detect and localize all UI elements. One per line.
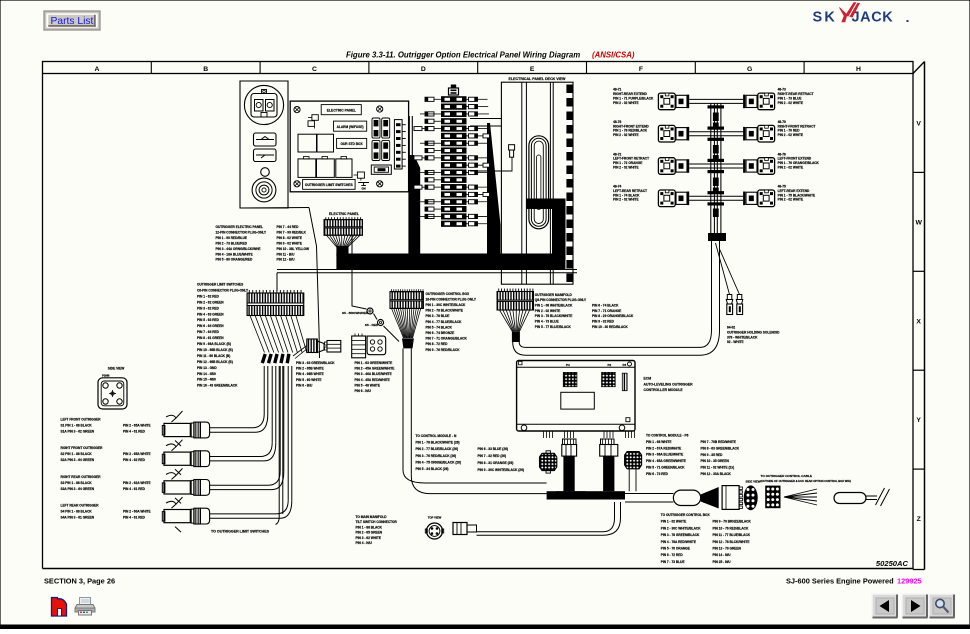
trunk tail wires — [711, 241, 713, 330]
svg-text:PIN 1 - 63 GREEN/WHITE: PIN 1 - 63 GREEN/WHITE — [355, 361, 393, 365]
terminal block ladder — [414, 85, 499, 227]
svg-text:PIN 10 - 30 RED/BLACK: PIN 10 - 30 RED/BLACK — [592, 325, 628, 329]
svg-text:TO OUTRIGGER CONTROL BOX: TO OUTRIGGER CONTROL BOX — [661, 513, 711, 517]
svg-text:S5 - BROWN/RED: S5 - BROWN/RED — [342, 311, 369, 315]
svg-text:PIN 6 - 74 BLACK: PIN 6 - 74 BLACK — [592, 304, 619, 308]
electric panel 12-pin connector — [324, 217, 362, 235]
manifold cable ferrule — [512, 332, 520, 342]
svg-text:PIN 10 - 66B BLACK (B): PIN 10 - 66B BLACK (B) — [197, 348, 233, 352]
svg-text:PIN 2 - 02 WHITE: PIN 2 - 02 WHITE — [535, 309, 561, 313]
svg-text:ALARM (W/FUSE): ALARM (W/FUSE) — [337, 125, 364, 129]
electric panel enclosure — [290, 101, 408, 192]
main harness trunk horizontal — [336, 254, 565, 270]
svg-text:12-PIN CONNECTOR PLUG-ONLY: 12-PIN CONNECTOR PLUG-ONLY — [216, 230, 268, 234]
circuit breaker CB1 — [371, 165, 391, 174]
svg-text:PIN 4 - 77 BLUE/BLACK: PIN 4 - 77 BLUE/BLACK — [426, 320, 463, 324]
svg-text:PIN 2 - 62 GREEN: PIN 2 - 62 GREEN — [197, 300, 224, 304]
terminal strip TS1 — [394, 120, 405, 169]
svg-text:PIN 4 - N/U: PIN 4 - N/U — [356, 541, 373, 545]
svg-text:F: F — [639, 66, 643, 73]
svg-text:S1 PIN 1 - 88 BLACK: S1 PIN 1 - 88 BLACK — [61, 424, 93, 428]
svg-text:PIN 7 - 99 RED/BLK: PIN 7 - 99 RED/BLK — [277, 230, 307, 234]
svg-text:PIN 3 - 78 GREEN/BLACK: PIN 3 - 78 GREEN/BLACK — [661, 533, 700, 537]
svg-text:PIN 4 - 73 BLUE: PIN 4 - 73 BLUE — [535, 320, 559, 324]
svg-text:PIN 2 - 02 WHITE: PIN 2 - 02 WHITE — [778, 165, 804, 169]
svg-text:OUTRIGGER LIMIT SWITCHES: OUTRIGGER LIMIT SWITCHES — [305, 183, 354, 187]
svg-text:PIN 8 - 02 WHITE: PIN 8 - 02 WHITE — [277, 236, 303, 240]
svg-text:PIN 8 - 63 GREEN/BLACK: PIN 8 - 63 GREEN/BLACK — [701, 446, 740, 450]
row 4 wire pair — [689, 195, 743, 197]
svg-text:50250AC: 50250AC — [876, 559, 909, 568]
svg-text:PIN 2 - 02 WHITE: PIN 2 - 02 WHITE — [778, 133, 804, 137]
tilt switch plug — [453, 523, 477, 535]
svg-text:PIN 2 - 77 BLUE/BLACK (26): PIN 2 - 77 BLUE/BLACK (26) — [416, 447, 459, 451]
svg-text:PIN 6 - N/U: PIN 6 - N/U — [355, 389, 372, 393]
svg-text:PIN 1 - 78 BLACK/WHITE (26): PIN 1 - 78 BLACK/WHITE (26) — [416, 441, 460, 445]
inline stadium connector 2 — [834, 493, 866, 504]
svg-text:PIN 11 - B/U: PIN 11 - B/U — [277, 252, 296, 256]
svg-text:PIN 2 - 67A RED/WHITE: PIN 2 - 67A RED/WHITE — [646, 446, 681, 450]
door indicator lamp — [261, 168, 270, 177]
figure title — [346, 51, 635, 60]
ECM auto-leveling controller module — [517, 361, 635, 432]
svg-text:PIN 15 - 46/0: PIN 15 - 46/0 — [197, 378, 216, 382]
label OUTRIGGER LIMIT SWITCHES — [303, 179, 356, 189]
svg-text:X: X — [916, 318, 921, 325]
svg-text:PIN 1 - 02 WHITE: PIN 1 - 02 WHITE — [661, 520, 687, 524]
svg-text:PIN 4 - 62 RED: PIN 4 - 62 RED — [123, 458, 146, 462]
svg-text:TO MAIN MANIFOLD: TO MAIN MANIFOLD — [356, 515, 388, 519]
svg-text:PIN 25 - N/U: PIN 25 - N/U — [713, 560, 732, 564]
aux D-sub connector — [367, 336, 386, 355]
svg-text:LEFT FRONT OUTRIGGER: LEFT FRONT OUTRIGGER — [61, 418, 102, 422]
svg-text:PIN 9 - 35 RED: PIN 9 - 35 RED — [701, 453, 724, 457]
limit harness receptacle connector — [325, 341, 341, 353]
waffle connector face view — [765, 486, 780, 509]
label ALARM — [334, 121, 367, 131]
svg-text:PIN 2 - 02 WHITE: PIN 2 - 02 WHITE — [613, 165, 639, 169]
manifold connector wire fan — [500, 310, 530, 332]
svg-text:TILT SWITCH CONNECTOR: TILT SWITCH CONNECTOR — [356, 520, 398, 524]
svg-text:PIN 2 - 73 BLUE/RED: PIN 2 - 73 BLUE/RED — [216, 241, 248, 245]
solenoid connector row 4 right receptacle — [743, 192, 757, 206]
svg-text:OUTRIGGER MANIFOLD: OUTRIGGER MANIFOLD — [535, 293, 573, 297]
svg-text:PIN 2 - 65A WHITE: PIN 2 - 65A WHITE — [123, 452, 151, 456]
svg-text:16-PIN CONNECTOR PLUG ONLY: 16-PIN CONNECTOR PLUG ONLY — [426, 297, 477, 301]
svg-text:S4A PIN 3 - 61 GREEN: S4A PIN 3 - 61 GREEN — [61, 516, 95, 520]
outrigger limit switch 4 body — [162, 497, 190, 532]
svg-text:Parts List: Parts List — [51, 16, 94, 27]
ladder link wires to deck view box — [470, 118, 501, 120]
deck view box — [501, 82, 573, 284]
svg-text:W: W — [915, 219, 922, 226]
outrigger limit switch header connector — [247, 290, 304, 316]
svg-text:PIN 9 - 32 RED: PIN 9 - 32 RED — [592, 320, 615, 324]
svg-text:PIN 2 - 65 GREEN: PIN 2 - 65 GREEN — [356, 531, 383, 535]
svg-text:PIN 4 - 45A RED/WHITE: PIN 4 - 45A RED/WHITE — [355, 378, 390, 382]
svg-text:S4 PIN 1 - 88 BLACK: S4 PIN 1 - 88 BLACK — [61, 510, 93, 514]
svg-text:PIN 6 - B/U: PIN 6 - B/U — [296, 383, 313, 387]
svg-text:D: D — [421, 66, 426, 73]
outrigger limit switch 2 wire pair — [210, 456, 260, 458]
svg-text:PIN 16 - 43 GREEN/BLACK: PIN 16 - 43 GREEN/BLACK — [197, 384, 238, 388]
svg-text:PIN 9 - 02 WHITE: PIN 9 - 02 WHITE — [277, 241, 303, 245]
holding solenoid blade terminal 1 — [726, 295, 733, 315]
row 1 wire pair — [689, 98, 743, 100]
svg-text:PIN 4 - 18A BLUE/WHITE: PIN 4 - 18A BLUE/WHITE — [216, 252, 253, 256]
svg-text:PIN 13 - 79 GREEN: PIN 13 - 79 GREEN — [713, 547, 742, 551]
control box connector wire fan — [392, 308, 421, 338]
svg-text:PIN 7 - 71 ORANGE/BLACK: PIN 7 - 71 ORANGE/BLACK — [426, 337, 468, 341]
deck box riser trunk — [552, 199, 566, 261]
svg-text:PIN 3 - 44A ORNG/BLCK/WHE: PIN 3 - 44A ORNG/BLCK/WHE — [216, 247, 261, 251]
svg-text:PIN 9 - 70 BRNZE/BLACK: PIN 9 - 70 BRNZE/BLACK — [713, 520, 752, 524]
svg-text:PIN 4 - 65A GREEN/WHITE: PIN 4 - 65A GREEN/WHITE — [646, 459, 686, 463]
svg-text:PIN 4 - 66B WHITE: PIN 4 - 66B WHITE — [296, 372, 324, 376]
solenoid connector row 4 right plug — [758, 190, 775, 207]
svg-text:PIN 7 - 32 RED (26): PIN 7 - 32 RED (26) — [478, 454, 507, 458]
svg-text:A: A — [94, 66, 99, 73]
Parts List button — [44, 11, 100, 30]
nav button next — [902, 594, 928, 618]
outrigger limit switch 4 wire pair — [210, 513, 276, 515]
svg-text:PIN 5 - 60 WHITE: PIN 5 - 60 WHITE — [296, 378, 322, 382]
control cable vertical run — [402, 348, 404, 470]
svg-text:SIDE VIEW: SIDE VIEW — [746, 479, 761, 483]
panel contactor M2 — [317, 159, 335, 178]
svg-text:S5 - RED: S5 - RED — [365, 323, 379, 327]
outrigger limit switch 1 cable gland — [191, 422, 209, 438]
main cable solenoids to manifold — [513, 330, 720, 355]
branch wires to holding solenoid — [716, 243, 730, 295]
wire bundle from electric panel connector — [336, 246, 348, 256]
svg-text:OUTRIGGER ELECTRIC PANEL: OUTRIGGER ELECTRIC PANEL — [216, 225, 264, 229]
svg-text:H: H — [856, 66, 861, 73]
svg-text:E: E — [530, 66, 535, 73]
svg-text:PIN 1 - 88 BLACK: PIN 1 - 88 BLACK — [356, 525, 383, 529]
outrigger limit switch 3 body — [162, 468, 190, 503]
svg-text:RIGHT REAR OUTRIGGER: RIGHT REAR OUTRIGGER — [61, 475, 102, 479]
svg-text:ELECTRIC PANEL: ELECTRIC PANEL — [329, 212, 360, 216]
svg-text:PIN 2 - 02 WHITE: PIN 2 - 02 WHITE — [778, 101, 804, 105]
svg-text:AUTO-LEVELING OUTRIGGER: AUTO-LEVELING OUTRIGGER — [644, 382, 694, 386]
solenoid connector row 1 right plug — [758, 93, 775, 110]
panel contactor M3 — [336, 159, 352, 178]
svg-text:PIN 5 - 71 GREEN/BLACK: PIN 5 - 71 GREEN/BLACK — [646, 466, 685, 470]
left vertical trunk from panel — [408, 116, 420, 262]
svg-text:PIN 2 - 78 BLACK/WHITE: PIN 2 - 78 BLACK/WHITE — [426, 309, 464, 313]
svg-text:PIN 2 - 62A WHITE: PIN 2 - 62A WHITE — [123, 481, 151, 485]
svg-text:Z: Z — [917, 516, 921, 523]
svg-text:P1686: P1686 — [102, 374, 110, 378]
svg-text:PIN 12 - B/U: PIN 12 - B/U — [277, 258, 296, 262]
ECM connector P2 plug with harness drop — [600, 439, 618, 491]
svg-text:C6-PIN CONNECTOR PLUG-ONLY: C6-PIN CONNECTOR PLUG-ONLY — [197, 288, 249, 292]
wire to ring terminals — [352, 236, 399, 342]
svg-text:PIN 5 - 80 ORANGE/RED: PIN 5 - 80 ORANGE/RED — [216, 258, 254, 262]
svg-text:PIN 3 - 78 BLACK/WHITE: PIN 3 - 78 BLACK/WHITE — [535, 314, 573, 318]
svg-text:TOP VIEW: TOP VIEW — [428, 516, 442, 520]
svg-text:PIN 5 - 63 RED: PIN 5 - 63 RED — [197, 318, 220, 322]
svg-text:PIN 6 - 64 GREEN: PIN 6 - 64 GREEN — [197, 324, 224, 328]
svg-text:LEFT REAR OUTRIGGER: LEFT REAR OUTRIGGER — [61, 504, 100, 508]
outrigger limit switch 2 cable gland — [191, 451, 209, 467]
harness junction bar — [547, 491, 625, 499]
svg-text:PIN 4 - 78A RED/WHITE: PIN 4 - 78A RED/WHITE — [661, 540, 696, 544]
svg-text:OUTRIGGER HOLDING SOLENOID: OUTRIGGER HOLDING SOLENOID — [727, 330, 780, 334]
solenoid connector row 3 right receptacle — [743, 159, 757, 173]
solenoid connector row 1 left plug — [658, 93, 675, 110]
svg-text:PIN 3 - 62 RED: PIN 3 - 62 RED — [197, 306, 220, 310]
svg-text:OUTRIGGER CONTROL BOX: OUTRIGGER CONTROL BOX — [426, 292, 471, 296]
svg-text:SK: SK — [813, 10, 838, 26]
svg-text:PIN 8 - 29 ORANGE/BLACK: PIN 8 - 29 ORANGE/BLACK — [592, 314, 634, 318]
svg-text:PIN 5 - 48 WHITE: PIN 5 - 48 WHITE — [355, 383, 381, 387]
svg-text:PIN 10 - 35 GREEN: PIN 10 - 35 GREEN — [701, 459, 730, 463]
panel relay K1 — [312, 115, 318, 121]
svg-text:PIN 11 - 02 WHITE (2x): PIN 11 - 02 WHITE (2x) — [701, 466, 735, 470]
svg-text:PIN 5 - 77 BLUE/BLACK: PIN 5 - 77 BLUE/BLACK — [535, 325, 572, 329]
row 2 wire pair — [689, 131, 743, 133]
deck box stub bar — [527, 199, 553, 210]
svg-text:PIN 5 - 74 BLACK: PIN 5 - 74 BLACK — [426, 325, 453, 329]
solenoid connector row 2 right plug — [758, 125, 775, 142]
svg-text:PIN 9 - 30C WHITE/BLACK (26): PIN 9 - 30C WHITE/BLACK (26) — [478, 468, 524, 472]
control cable corner to ribbon — [403, 470, 547, 483]
outrigger limit switch 2 body — [162, 440, 190, 475]
svg-text:JACK: JACK — [852, 10, 894, 26]
solenoid connector row 2 right receptacle — [743, 127, 757, 141]
svg-text:PIN 9 - 66A BLACK (B): PIN 9 - 66A BLACK (B) — [197, 342, 231, 346]
svg-text:PIN 2 - 60A WHITE: PIN 2 - 60A WHITE — [123, 510, 151, 514]
limit harness plug wires — [293, 346, 307, 357]
solenoid connector row 3 left plug — [658, 158, 675, 175]
outrigger limit switch 1 body — [162, 411, 190, 446]
ring terminal S5 brown/red — [367, 308, 373, 314]
tilt switch round connector — [425, 523, 443, 539]
svg-text:SECTION 3, Page 26: SECTION 3, Page 26 — [44, 577, 115, 586]
svg-text:PIN 12 - 66B BLACK (B): PIN 12 - 66B BLACK (B) — [197, 360, 233, 364]
drawing frame with zone letters — [43, 62, 925, 570]
outrigger control box 16-pin connector — [390, 289, 423, 308]
svg-text:PIN 3 - 76 RED/BLACK (26): PIN 3 - 76 RED/BLACK (26) — [416, 454, 457, 458]
svg-text:(ANSI/CSA): (ANSI/CSA) — [592, 51, 635, 60]
svg-text:PIN 6 - 72 RED: PIN 6 - 72 RED — [661, 553, 684, 557]
svg-text:G: G — [747, 66, 752, 73]
svg-text:(OUTSIDE OF OUTRIGGER & HCU RE: (OUTSIDE OF OUTRIGGER & HCU REAR OPTION … — [761, 479, 852, 483]
svg-text:ECM: ECM — [644, 377, 652, 381]
deck box dashed edge strip — [566, 85, 573, 283]
ECM connector P4 plug with harness drop — [556, 439, 586, 496]
cable junction to stadium connector — [625, 493, 673, 495]
svg-text:PIN 2 - 45A GREEN/WHITE: PIN 2 - 45A GREEN/WHITE — [355, 367, 395, 371]
svg-text:PIN 7 - 71 ORANGE: PIN 7 - 71 ORANGE — [592, 309, 621, 313]
red book icon — [52, 598, 67, 617]
deck view plug P9 — [509, 145, 515, 158]
svg-text:C: C — [312, 66, 317, 73]
aux pin header connector — [352, 334, 366, 358]
svg-text:PIN 2 - 30C WHITE/BLACK: PIN 2 - 30C WHITE/BLACK — [661, 526, 702, 530]
limit harness ferrules — [261, 354, 291, 364]
svg-text:P4: P4 — [566, 363, 570, 367]
deck view stadium cutout — [529, 136, 549, 229]
svg-text:V: V — [916, 121, 921, 128]
solenoid connector row 1 right receptacle — [743, 95, 757, 109]
outrigger limit switch 4 cable gland — [191, 508, 209, 524]
svg-text:PIN 3 - 63 GREEN/BLACK: PIN 3 - 63 GREEN/BLACK — [296, 361, 335, 365]
label OUR STD BOX — [337, 138, 367, 148]
ECM connector X2 cross plug — [625, 452, 642, 492]
svg-text:Q8-PIN CONNECTOR PLUG-ONLY: Q8-PIN CONNECTOR PLUG-ONLY — [535, 298, 587, 302]
svg-text:PIN 2 - 02 WHITE: PIN 2 - 02 WHITE — [778, 198, 804, 202]
right diagonal trunk from terminal ladder — [487, 123, 501, 262]
svg-text:SIDE VIEW: SIDE VIEW — [108, 367, 124, 371]
panel mounting bolts — [294, 107, 300, 113]
printer icon — [75, 598, 95, 616]
svg-text:PIN 4 - 75 ORNGE/BLACK (26): PIN 4 - 75 ORNGE/BLACK (26) — [416, 460, 462, 464]
svg-text:PIN 3 - 78 BLUE: PIN 3 - 78 BLUE — [426, 314, 450, 318]
svg-text:64-02: 64-02 — [727, 326, 735, 330]
svg-text:PIN 13 - GND: PIN 13 - GND — [197, 366, 217, 370]
ECM bottom pin ticks — [544, 431, 635, 438]
ring terminal S5 red — [378, 320, 384, 326]
svg-text:PIN 2 - 02 WHITE: PIN 2 - 02 WHITE — [613, 101, 639, 105]
multi-pin output connector — [722, 486, 742, 510]
svg-text:PIN 9 - 76 RED/BLACK: PIN 9 - 76 RED/BLACK — [426, 348, 461, 352]
svg-text:PIN 3 - 46A BLUE/WHITE: PIN 3 - 46A BLUE/WHITE — [355, 372, 392, 376]
svg-text:PIN 1 - 68 WHITE: PIN 1 - 68 WHITE — [646, 440, 672, 444]
svg-text:S1A PIN 3 - 62 GREEN: S1A PIN 3 - 62 GREEN — [61, 430, 95, 434]
svg-text:PIN 1 - 90 RED/BLUE: PIN 1 - 90 RED/BLUE — [216, 236, 248, 240]
svg-text:S3 PIN 1 - 88 BLACK: S3 PIN 1 - 88 BLACK — [61, 481, 93, 485]
svg-text:OUTRIGGER LIMIT SWITCHES: OUTRIGGER LIMIT SWITCHES — [197, 283, 243, 287]
svg-text:PIN 1 - 30C WHITE/BLACK: PIN 1 - 30C WHITE/BLACK — [426, 303, 467, 307]
panel contactor M1 — [298, 159, 316, 178]
panel door fold line — [309, 208, 320, 359]
svg-text:OUR STD BOX: OUR STD BOX — [341, 142, 364, 146]
svg-text:PIN 8 - 61 GREEN: PIN 8 - 61 GREEN — [197, 336, 224, 340]
svg-text:PIN 8 - 72 RED: PIN 8 - 72 RED — [426, 342, 449, 346]
cable break slash — [876, 488, 885, 505]
svg-text:02 - WHITE: 02 - WHITE — [727, 340, 744, 344]
svg-text:PIN 12 - 78 BLCK/WHITE: PIN 12 - 78 BLCK/WHITE — [713, 540, 750, 544]
solenoid connector row 3 left receptacle — [676, 159, 689, 173]
svg-text:PIN 2 - 65B WHITE: PIN 2 - 65B WHITE — [296, 367, 324, 371]
svg-text:PIN 7 - 70B RED/WHITE: PIN 7 - 70B RED/WHITE — [701, 440, 736, 444]
power receptacle on door — [244, 85, 283, 124]
svg-text:PIN 1 - 62 RED: PIN 1 - 62 RED — [197, 294, 220, 298]
svg-text:PIN 2 - 65A WHITE: PIN 2 - 65A WHITE — [123, 424, 151, 428]
nav button zoom — [929, 594, 955, 618]
svg-text:PIN 4 - 61 RED: PIN 4 - 61 RED — [123, 487, 146, 491]
svg-text:P3: P3 — [623, 363, 627, 367]
svg-text:Figure 3.3-11. Outrigger Opti: Figure 3.3-11. Outrigger Option Electric… — [346, 51, 580, 60]
inline splice stadium connector — [673, 490, 700, 505]
svg-text:Y: Y — [916, 417, 921, 424]
svg-text:PIN 14 - 45/0: PIN 14 - 45/0 — [197, 372, 216, 376]
SkyJack logo — [813, 3, 909, 26]
limit switch header wire fan — [250, 316, 307, 353]
svg-text:PIN 4 - 63 GREEN: PIN 4 - 63 GREEN — [197, 312, 224, 316]
svg-text:RIGHT FRONT OUTRIGGER: RIGHT FRONT OUTRIGGER — [61, 446, 104, 450]
svg-text:PIN 5 - 70 ORANGE: PIN 5 - 70 ORANGE — [661, 547, 690, 551]
svg-text:378 - WHITE/BLACK: 378 - WHITE/BLACK — [727, 335, 758, 339]
side view flange component — [98, 374, 127, 410]
solenoid connector row 3 right plug — [758, 158, 775, 175]
solenoid harness trunk — [708, 103, 725, 233]
door switch 2 — [254, 149, 277, 162]
svg-text:PIN 3 - 66A BLUE/WHITE: PIN 3 - 66A BLUE/WHITE — [646, 453, 683, 457]
tilt switch wire to junction — [477, 502, 615, 532]
limit harness down pair to bottom — [278, 366, 280, 517]
svg-text:ELECTRIC PANEL: ELECTRIC PANEL — [327, 109, 356, 113]
svg-text:PIN 6 - 73 RED: PIN 6 - 73 RED — [646, 472, 669, 476]
panel door outline — [240, 81, 320, 358]
svg-text:PIN 7 - 73 BLUE: PIN 7 - 73 BLUE — [661, 560, 685, 564]
svg-text:PIN 8 - 31 ORANGE (26): PIN 8 - 31 ORANGE (26) — [478, 461, 514, 465]
svg-text:PIN 7 - 44 RED: PIN 7 - 44 RED — [277, 225, 300, 229]
svg-text:GN: GN — [361, 186, 365, 190]
electric panel connector wire fan — [327, 235, 361, 248]
cable wedge boot — [701, 487, 719, 509]
svg-text:PIN 3 - 62 WHITE: PIN 3 - 62 WHITE — [356, 536, 382, 540]
harness return wire pair — [277, 269, 577, 271]
page bottom black bar — [0, 625, 970, 630]
control cable ferrule — [402, 338, 414, 348]
svg-text:PIN 10 - 76 RED/BLACK: PIN 10 - 76 RED/BLACK — [713, 526, 749, 530]
panel relay K3 — [317, 134, 334, 152]
frayed wire fan out — [784, 489, 817, 505]
svg-text:TO OUTRIGGER CONTROL CABLE: TO OUTRIGGER CONTROL CABLE — [761, 474, 812, 478]
solenoid connector row 4 left plug — [658, 190, 675, 207]
limit harness plug connector — [307, 339, 324, 353]
fuse block F3 F4 — [372, 140, 380, 160]
svg-text:PIN 12 - 30A BLACK: PIN 12 - 30A BLACK — [701, 472, 732, 476]
svg-text:129925: 129925 — [897, 577, 922, 586]
label ELECTRIC PANEL — [321, 105, 361, 115]
ECM connector X1 cross plug — [540, 451, 557, 473]
fuse block F1 F2 — [372, 118, 380, 138]
svg-text:TO CONTROL MODULE - P6: TO CONTROL MODULE - P6 — [646, 434, 689, 438]
svg-text:ELECTRICAL PANEL DECK VIEW: ELECTRICAL PANEL DECK VIEW — [509, 77, 567, 81]
svg-text:PIN 1 - 08 WHITE/BLACK: PIN 1 - 08 WHITE/BLACK — [535, 304, 573, 308]
outrigger limit switch 3 cable gland — [191, 480, 209, 496]
outrigger limit switch 1 wire pair — [210, 427, 252, 429]
svg-text:PIN 6 - 33 BLUE (26): PIN 6 - 33 BLUE (26) — [478, 447, 508, 451]
solenoid connector row 2 left receptacle — [676, 127, 689, 141]
svg-text:TO OUTRIGGER LIMIT SWITCHES: TO OUTRIGGER LIMIT SWITCHES — [211, 530, 270, 534]
svg-text:B: B — [203, 66, 208, 73]
svg-text:PIN 4 - 61 RED: PIN 4 - 61 RED — [123, 516, 146, 520]
wire from deck plug to ladder — [470, 158, 512, 172]
door horn button — [252, 178, 276, 202]
round connector side view — [744, 485, 758, 510]
holding solenoid blade terminal 2 — [736, 295, 743, 315]
solenoid connector row 4 left receptacle — [676, 192, 689, 206]
svg-text:PIN 5 - 34 BLACK (26): PIN 5 - 34 BLACK (26) — [416, 467, 449, 471]
svg-text:P2: P2 — [608, 363, 612, 367]
nav button previous — [872, 594, 898, 618]
solenoid connector row 2 left plug — [658, 125, 675, 142]
outrigger manifold connector — [497, 289, 533, 311]
svg-text:PIN 7 - 64 RED: PIN 7 - 64 RED — [197, 330, 220, 334]
panel relay K4 — [357, 172, 364, 178]
svg-text:PIN 14 - N/U: PIN 14 - N/U — [713, 553, 732, 557]
outrigger limit switch 3 wire pair — [210, 484, 268, 486]
row 3 wire pair — [689, 163, 743, 165]
svg-text:S3A PIN 3 - 64 GREEN: S3A PIN 3 - 64 GREEN — [61, 487, 95, 491]
panel relay K2 — [298, 134, 317, 152]
